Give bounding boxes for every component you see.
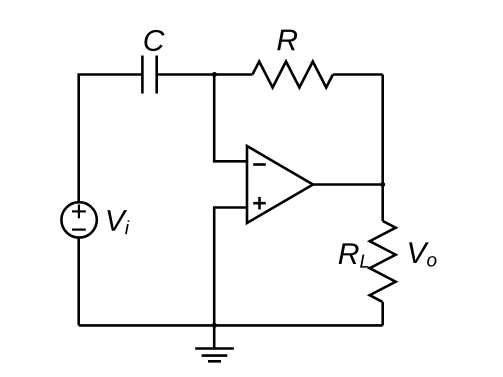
capacitor C1 plates [142, 56, 156, 94]
wire cap right plate to node A and on to resistor R [157, 73, 253, 76]
resistor RL zigzag [370, 221, 396, 302]
op-amp inverting input minus sign [253, 163, 266, 166]
label C [144, 30, 164, 51]
node A junction dot [212, 72, 217, 77]
wire node B down to load resistor RL top [381, 185, 384, 222]
wire bottom rail [79, 324, 383, 327]
wire op-amp output to node B [313, 183, 383, 186]
ground junction dot [212, 323, 217, 328]
label RL [339, 243, 369, 267]
op-amp U1 triangle [247, 146, 313, 223]
wire non-inverting input down to bottom rail [214, 208, 247, 326]
wire resistor R right end to right rail corner [333, 73, 383, 76]
wire left rail bottom (source bottom to bottom-left corner) [77, 239, 80, 326]
ground symbol [195, 325, 234, 361]
voltage source minus sign [72, 229, 86, 231]
op-amp non-inverting input plus sign [253, 197, 266, 210]
label R [277, 30, 297, 51]
node B output junction dot [380, 182, 385, 187]
label Vi [107, 210, 129, 234]
resistor R zigzag [253, 62, 333, 88]
wire right feedback rail (top corner down to output node) [381, 75, 384, 185]
wire node A down to inverting input [214, 75, 247, 162]
voltage source plus sign [72, 205, 86, 219]
voltage source Vi circle [61, 202, 96, 237]
wire load resistor RL bottom to bottom rail [381, 302, 384, 325]
label Vo [409, 242, 436, 266]
wire top-left L (cap left plate to left rail, down to source top) [79, 75, 143, 202]
